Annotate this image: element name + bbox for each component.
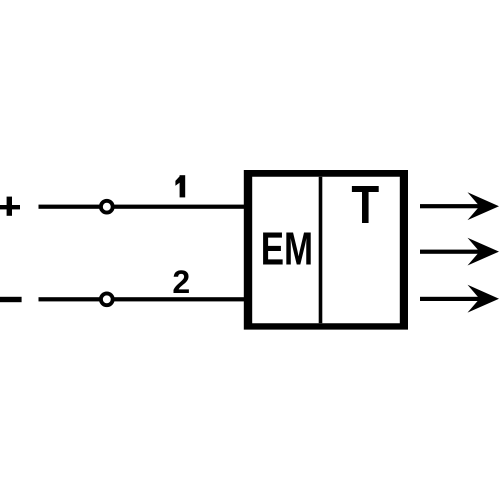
svg-text:2: 2 [172, 264, 190, 300]
svg-text:T: T [351, 174, 379, 234]
svg-text:EM: EM [261, 222, 313, 274]
